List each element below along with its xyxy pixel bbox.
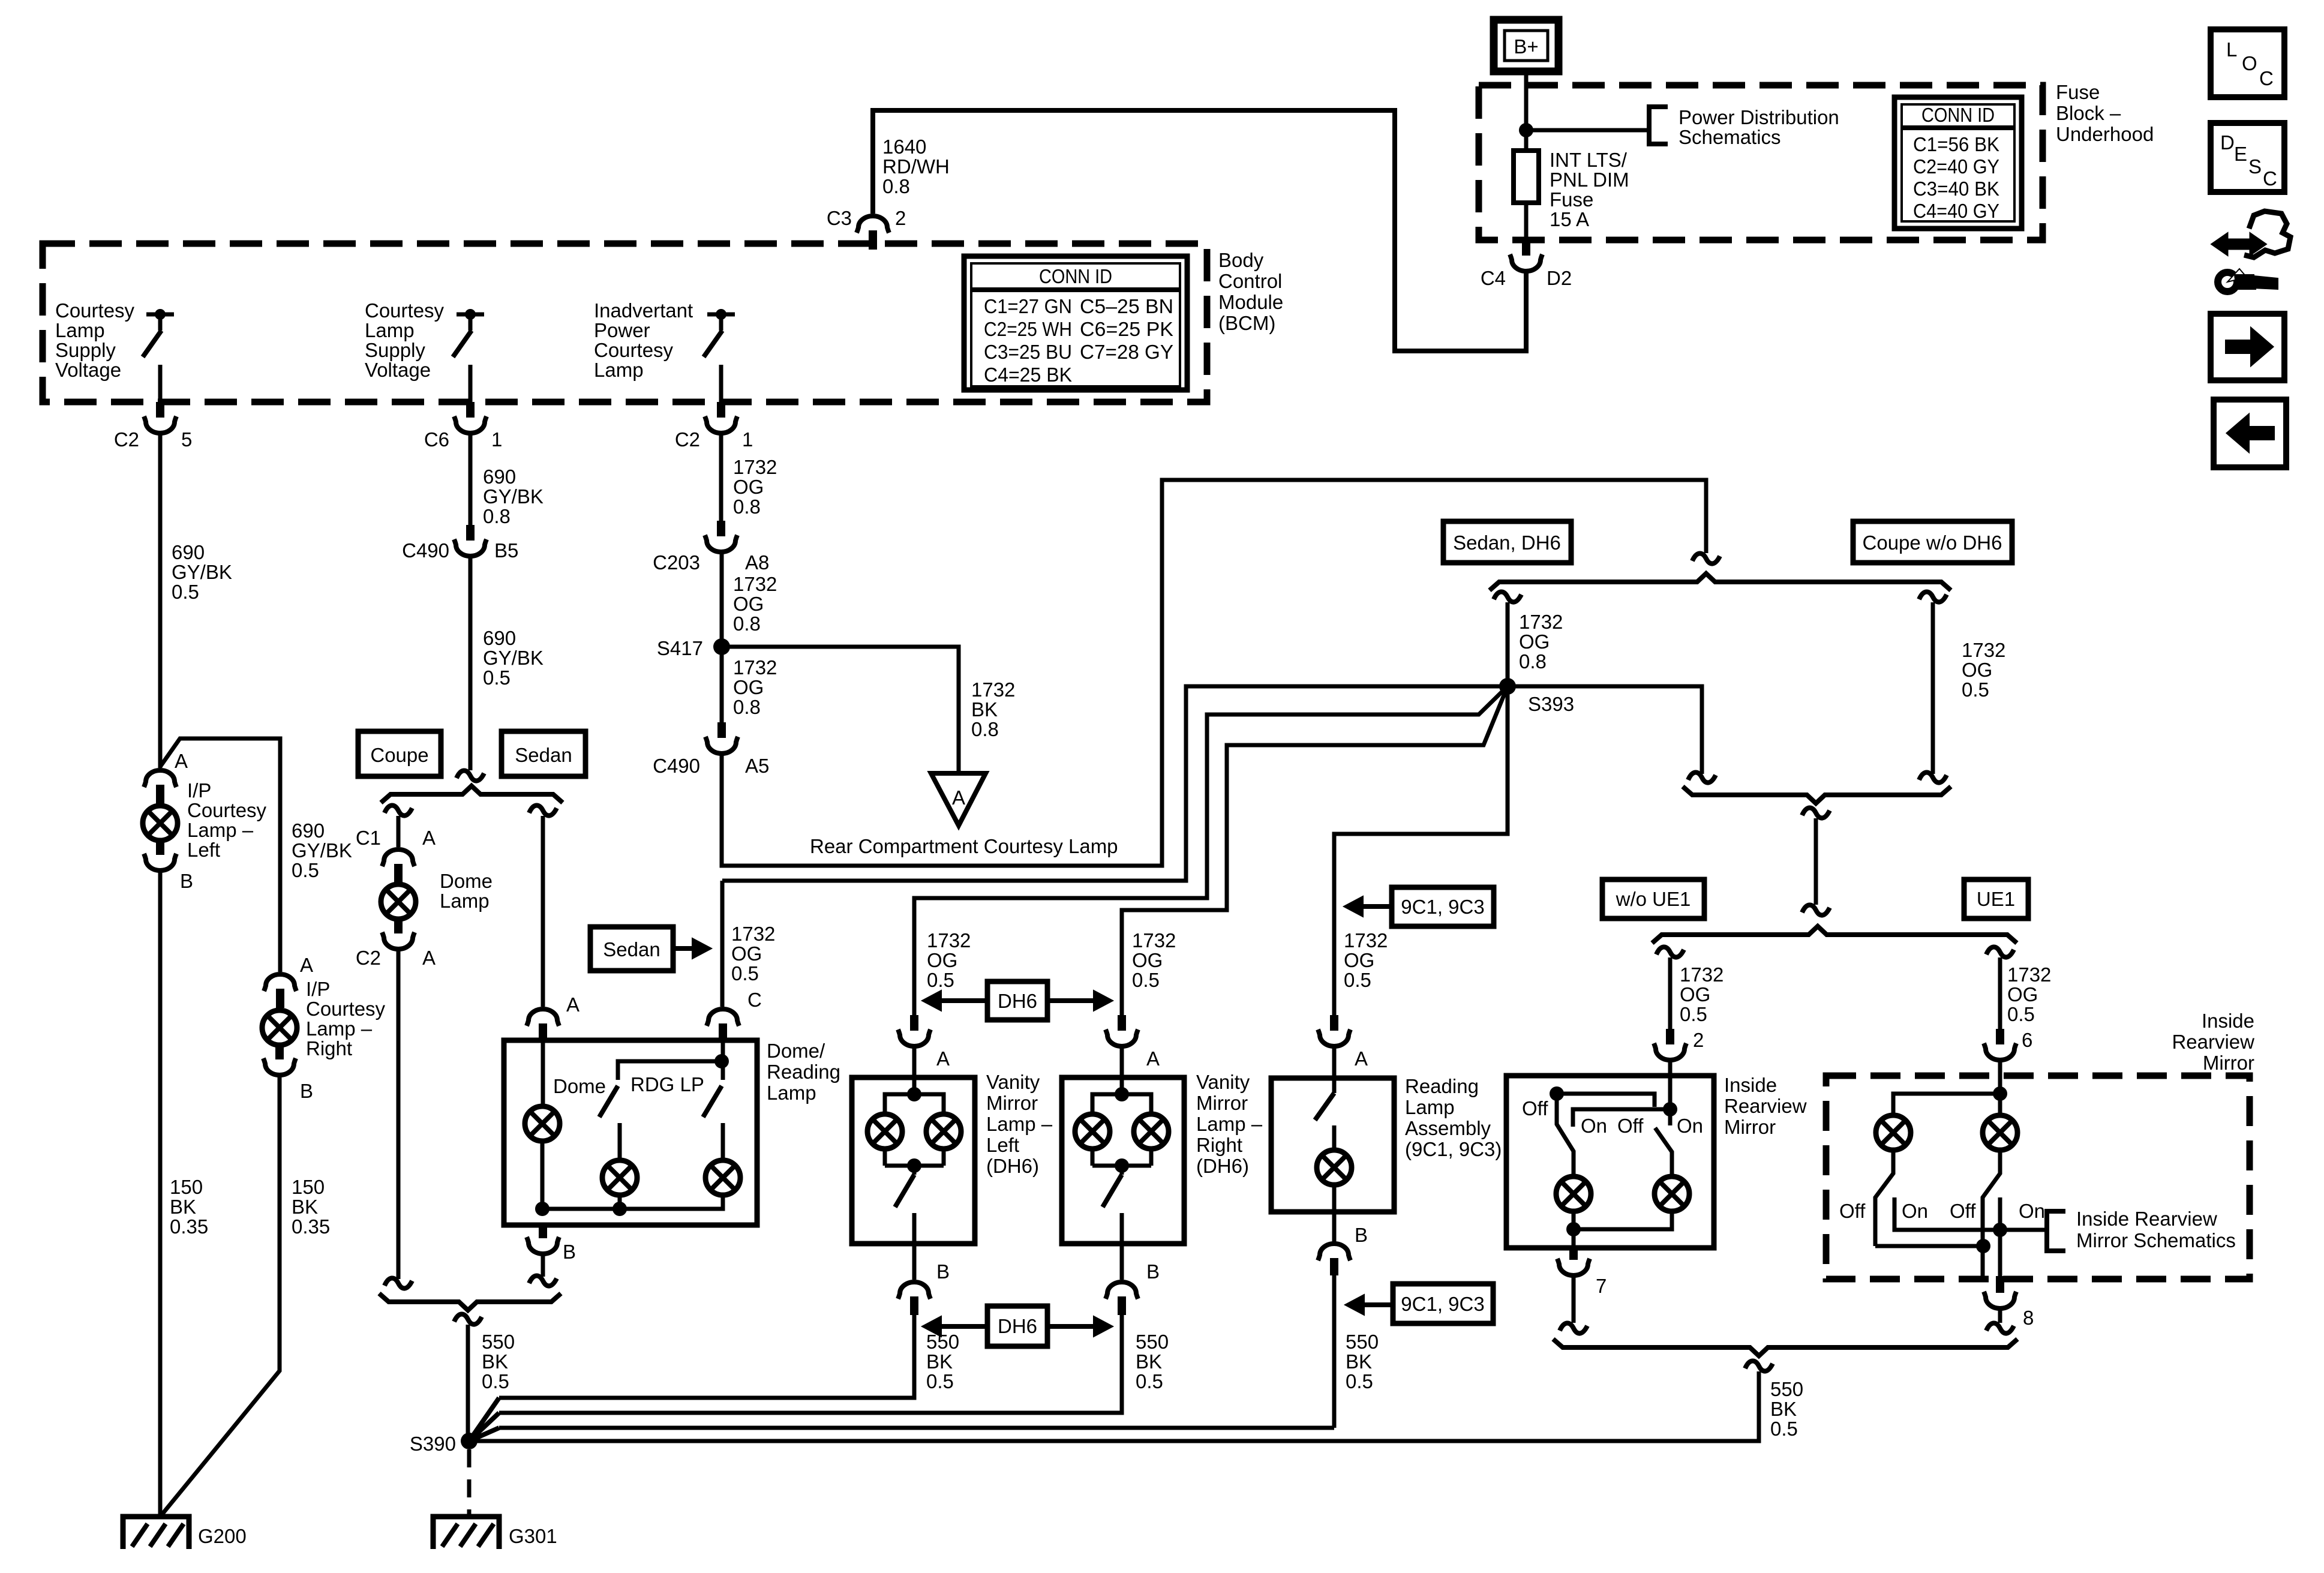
- svg-text:S417: S417: [657, 637, 703, 659]
- svg-text:B: B: [563, 1241, 576, 1263]
- svg-text:Mirror Schematics: Mirror Schematics: [2076, 1229, 2236, 1251]
- label 690 GY/BK 0.8: [483, 466, 544, 527]
- svg-text:Courtesy: Courtesy: [55, 299, 135, 322]
- wire bulb to B: [1332, 1186, 1337, 1242]
- label Off: [1950, 1200, 1976, 1222]
- svg-text:Control: Control: [1218, 270, 1282, 292]
- S393 left line to dome/reading C feed: [722, 686, 1508, 881]
- wire S393 right to merge brace: [1508, 686, 1702, 774]
- connector A of reading lamp assembly: [1318, 1015, 1368, 1070]
- svg-text:OG: OG: [2007, 983, 2038, 1005]
- svg-text:Schematics: Schematics: [1679, 126, 1781, 148]
- vanity left exit wire: [912, 1213, 917, 1244]
- connector B of vanity mirror lamp left: [898, 1244, 950, 1315]
- connector B of I/P courtesy lamp left: [144, 842, 193, 892]
- mirror lower rail: [1573, 1109, 1670, 1127]
- svg-text:Power Distribution: Power Distribution: [1679, 106, 1839, 128]
- connector C2 pin 5: [114, 402, 193, 451]
- svg-text:A: A: [952, 786, 965, 809]
- right mirror drop curl: [1986, 947, 2014, 957]
- splice S393: [1499, 678, 1574, 715]
- reading lamp assembly box: [1271, 1078, 1394, 1212]
- svg-text:0.8: 0.8: [483, 505, 511, 527]
- UE1 right bulb feed: [1998, 1094, 2002, 1114]
- svg-text:RDG LP: RDG LP: [630, 1073, 704, 1095]
- svg-text:OG: OG: [1519, 631, 1550, 653]
- label 1732 OG 0.5: [1132, 929, 1176, 991]
- label 1640 RD/WH 0.8: [882, 136, 950, 197]
- svg-text:1732: 1732: [1519, 611, 1563, 633]
- junction dot bottom rail left: [535, 1202, 550, 1216]
- UE1 left On post: [1894, 1197, 2047, 1230]
- svg-text:C1=56 BK: C1=56 BK: [1913, 133, 1999, 155]
- svg-text:5: 5: [181, 428, 192, 451]
- wire reading lamp return: [499, 1426, 1334, 1430]
- svg-text:C6: C6: [424, 428, 449, 451]
- 9C1 9C3 tag with arrow (top): [1344, 887, 1494, 926]
- svg-text:1640: 1640: [882, 136, 926, 158]
- svg-text:On: On: [2019, 1200, 2045, 1222]
- svg-text:Reading: Reading: [767, 1061, 840, 1083]
- curl below mirror brace: [1745, 1361, 1773, 1371]
- vanity right bulb 1: [1075, 1114, 1110, 1149]
- connector C490 pin A5: [653, 722, 769, 777]
- left RDG lamp feed: [618, 1123, 622, 1159]
- junction dot fuse feed: [1519, 123, 1533, 137]
- svg-text:Off: Off: [1950, 1200, 1976, 1222]
- svg-text:Sedan: Sedan: [603, 938, 660, 960]
- connector B of I/P courtesy lamp right: [263, 1046, 313, 1102]
- brace mirror returns: [1553, 1339, 2017, 1356]
- sedan tag box with arrow: [590, 927, 711, 971]
- svg-text:Lamp: Lamp: [365, 319, 415, 341]
- svg-text:E: E: [2234, 143, 2247, 165]
- svg-text:Lamp –: Lamp –: [1196, 1113, 1263, 1135]
- svg-text:C7=28 GY: C7=28 GY: [1080, 341, 1173, 363]
- svg-text:1732: 1732: [733, 656, 777, 679]
- junction dot upper rail: [1550, 1086, 1564, 1101]
- label 1732 OG 0.8: [733, 656, 777, 718]
- svg-text:Lamp: Lamp: [55, 319, 105, 341]
- svg-text:0.5: 0.5: [2007, 1003, 2035, 1025]
- DH6 tag with arrows (top): [922, 981, 1113, 1020]
- svg-text:Courtesy: Courtesy: [365, 299, 445, 322]
- svg-text:A: A: [175, 750, 188, 772]
- svg-text:C: C: [747, 989, 762, 1011]
- wire S417 down to C490: [720, 647, 724, 722]
- dome/reading lamp box: [504, 1040, 757, 1225]
- junction dot: [907, 1087, 921, 1101]
- junction dot: [1115, 1087, 1129, 1101]
- svg-text:0.5: 0.5: [292, 859, 319, 881]
- label 150 BK 0.35: [292, 1176, 330, 1238]
- svg-text:A5: A5: [745, 755, 769, 777]
- svg-text:Inadvertant: Inadvertant: [594, 299, 693, 322]
- inside rearview mirror dashed box (UE1): [1826, 1076, 2250, 1279]
- svg-text:1732: 1732: [1344, 929, 1388, 951]
- body control module dashed box: [43, 244, 1207, 402]
- svg-text:BK: BK: [170, 1196, 196, 1218]
- label 1732 OG 0.8: [1519, 611, 1563, 673]
- label Off: [1839, 1200, 1866, 1222]
- left mirror switch lever: [1557, 1094, 1574, 1175]
- label 1732 OG 0.5: [731, 923, 775, 984]
- end curl dome return: [385, 1278, 412, 1288]
- wire A into box to dome bulb: [541, 1043, 545, 1105]
- label 150 BK 0.35: [170, 1176, 208, 1238]
- vanity left switch lever: [895, 1166, 914, 1207]
- label RDG LP: [630, 1073, 704, 1095]
- wire drop to S393: [1506, 602, 1510, 686]
- junction dot: [907, 1158, 921, 1173]
- connector A of I/P courtesy lamp right: [264, 954, 313, 1008]
- vanity left bulb 1: [867, 1114, 902, 1149]
- svg-text:OG: OG: [1962, 659, 1992, 681]
- label 1732 OG 0.5: [1680, 963, 1724, 1025]
- brace merge to mirrors: [1683, 786, 1951, 803]
- svg-text:0.5: 0.5: [1680, 1003, 1707, 1025]
- label 1732 OG 0.5: [1962, 639, 2005, 701]
- left RDG switch lever: [599, 1086, 618, 1117]
- svg-text:I/P: I/P: [187, 779, 211, 801]
- svg-text:B: B: [936, 1260, 950, 1283]
- svg-text:G301: G301: [509, 1525, 557, 1547]
- connector B of vanity mirror lamp right: [1106, 1244, 1160, 1315]
- svg-text:0.8: 0.8: [733, 496, 761, 518]
- svg-text:C490: C490: [402, 539, 449, 562]
- svg-text:(BCM): (BCM): [1218, 312, 1275, 334]
- label Off: [1522, 1097, 1548, 1119]
- svg-text:C3=25 BU: C3=25 BU: [984, 341, 1072, 363]
- UE1 bottom link: [1875, 1244, 1983, 1248]
- switch Courtesy Lamp Supply Voltage (left) in BCM: [55, 299, 174, 381]
- svg-text:GY/BK: GY/BK: [292, 839, 352, 861]
- label pin 2: [1693, 1029, 1704, 1051]
- svg-text:A: A: [422, 827, 436, 849]
- svg-text:7: 7: [1596, 1275, 1607, 1297]
- label Fuse Block - Underhood: [2056, 81, 2154, 145]
- label On: [1902, 1200, 1928, 1222]
- svg-text:C3: C3: [827, 207, 852, 229]
- svg-text:1: 1: [491, 428, 502, 451]
- wire C2-5 down to I/P lamp left: [158, 431, 163, 768]
- svg-text:GY/BK: GY/BK: [172, 561, 232, 583]
- svg-text:Courtesy: Courtesy: [594, 339, 674, 361]
- label On: [1677, 1115, 1703, 1137]
- svg-text:Lamp: Lamp: [440, 890, 490, 912]
- svg-text:550: 550: [1770, 1378, 1803, 1400]
- svg-text:Coupe w/o DH6: Coupe w/o DH6: [1863, 532, 2002, 554]
- wire C6-1 down to C490: [469, 431, 473, 525]
- brace sedan-dh6 / coupe w-o dh6: [1490, 574, 1951, 590]
- wrench arrow icon: [2212, 211, 2290, 292]
- svg-text:690: 690: [483, 466, 516, 488]
- svg-text:Courtesy: Courtesy: [306, 998, 386, 1020]
- svg-text:PNL DIM: PNL DIM: [1550, 169, 1629, 191]
- UE1 left switch lever: [1875, 1151, 1893, 1246]
- svg-text:0.8: 0.8: [733, 696, 761, 718]
- switch Inadvertant Power Courtesy Lamp in BCM: [594, 299, 735, 381]
- svg-text:0.5: 0.5: [1132, 969, 1160, 991]
- junction dot bottom rail middle: [612, 1202, 627, 1216]
- dome bulb: [525, 1106, 560, 1141]
- connector C of dome/reading lamp: [707, 989, 762, 1043]
- switch Courtesy Lamp Supply Voltage (mid) in BCM: [365, 299, 484, 381]
- wire A into vanity right: [1120, 1044, 1124, 1094]
- curl below brace: [454, 1314, 482, 1324]
- junction dot On rail: [1993, 1223, 2007, 1237]
- label 550 BK 0.5: [1770, 1378, 1803, 1440]
- junction dot: [1976, 1239, 1990, 1253]
- svg-text:Body: Body: [1218, 249, 1264, 271]
- fuse block - underhood dashed box: [1479, 85, 2043, 240]
- svg-text:8: 8: [2023, 1307, 2034, 1329]
- coupe drop curl: [385, 805, 412, 815]
- wire w/o UE1 drop: [1668, 957, 1673, 1029]
- svg-text:15 A: 15 A: [1550, 208, 1589, 230]
- label 1732 BK 0.8: [971, 679, 1015, 740]
- svg-text:BK: BK: [926, 1350, 953, 1373]
- end curl pin8: [1986, 1323, 2014, 1333]
- label 550 BK 0.5: [1136, 1331, 1169, 1392]
- svg-text:0.35: 0.35: [170, 1215, 208, 1238]
- svg-text:Assembly: Assembly: [1405, 1117, 1491, 1139]
- wire reading B down: [1332, 1275, 1337, 1428]
- svg-text:BK: BK: [1136, 1350, 1162, 1373]
- junction dot mirror feed: [1663, 1102, 1677, 1116]
- svg-text:OG: OG: [733, 676, 764, 698]
- svg-text:BK: BK: [482, 1350, 508, 1373]
- svg-text:0.8: 0.8: [733, 613, 761, 635]
- end curl: [1688, 772, 1716, 782]
- svg-text:2: 2: [895, 207, 906, 229]
- left arrow legend box: [2214, 400, 2286, 467]
- label Reading Lamp Assembly (9C1, 9C3): [1405, 1075, 1502, 1160]
- label 1732 OG 0.5: [927, 929, 971, 991]
- svg-text:0.5: 0.5: [1346, 1370, 1373, 1392]
- svg-text:Block –: Block –: [2056, 102, 2121, 124]
- svg-text:OG: OG: [731, 942, 762, 965]
- svg-text:0.8: 0.8: [882, 175, 910, 197]
- wire switch to BCM edge: [719, 365, 723, 402]
- svg-text:Lamp: Lamp: [594, 359, 644, 381]
- svg-text:S: S: [2248, 155, 2262, 178]
- wire switch to BCM edge: [469, 365, 473, 402]
- wire S417 to rear compartment lamp triangle: [722, 647, 959, 773]
- label 690 GY/BK 0.5: [292, 819, 352, 881]
- svg-text:C2: C2: [114, 428, 139, 451]
- reading bulb 1: [602, 1160, 637, 1195]
- svg-text:S390: S390: [410, 1433, 456, 1455]
- svg-text:A8: A8: [745, 551, 769, 574]
- off-page bracket Power Distribution: [1649, 106, 1839, 148]
- label 690 GY/BK 0.5: [483, 627, 544, 689]
- wire vanity left return: [499, 1315, 914, 1398]
- I/P courtesy lamp - right: [262, 978, 386, 1059]
- svg-text:Off: Off: [1617, 1115, 1644, 1137]
- svg-text:(9C1, 9C3): (9C1, 9C3): [1405, 1138, 1502, 1160]
- svg-text:A: A: [566, 993, 580, 1016]
- svg-text:Right: Right: [1196, 1134, 1242, 1156]
- curl above UE1 split brace: [1802, 905, 1830, 915]
- svg-text:9C1, 9C3: 9C1, 9C3: [1401, 1293, 1484, 1315]
- svg-text:Mirror: Mirror: [1724, 1116, 1776, 1138]
- svg-text:Lamp: Lamp: [1405, 1096, 1455, 1118]
- svg-text:DH6: DH6: [998, 990, 1037, 1012]
- svg-text:CONN ID: CONN ID: [1039, 265, 1112, 287]
- svg-text:1732: 1732: [1132, 929, 1176, 951]
- wire A into reading lamp: [1332, 1044, 1337, 1093]
- connector C2 pin 1: [675, 402, 753, 451]
- svg-text:C: C: [2259, 67, 2274, 89]
- svg-text:CONN ID: CONN ID: [1921, 104, 1995, 126]
- label 1732 OG 0.8: [733, 573, 777, 635]
- end curl pin7: [1560, 1323, 1587, 1333]
- svg-text:C2=40 GY: C2=40 GY: [1913, 155, 1999, 178]
- label 550 BK 0.5: [1346, 1331, 1379, 1392]
- S393 down to reading lamp feed: [1334, 686, 1508, 1015]
- svg-text:Fuse: Fuse: [1550, 188, 1593, 211]
- svg-text:Left: Left: [986, 1134, 1019, 1156]
- svg-text:Mirror: Mirror: [1196, 1092, 1248, 1114]
- wire dome/reading C feed drop: [720, 881, 725, 1007]
- vanity mirror lamp right box: [1062, 1077, 1184, 1244]
- sedan drop curl: [529, 805, 557, 815]
- splice S390 with fan-in: [410, 1398, 499, 1455]
- svg-text:0.5: 0.5: [1962, 679, 1989, 701]
- connector A of dome/reading lamp: [527, 993, 580, 1043]
- svg-text:Rearview: Rearview: [2172, 1031, 2254, 1053]
- svg-text:B: B: [180, 870, 193, 892]
- svg-text:Right: Right: [306, 1037, 352, 1059]
- end curl: [529, 1275, 557, 1286]
- svg-text:550: 550: [1136, 1331, 1169, 1353]
- dashed wire S390 to G301: [467, 1449, 472, 1514]
- option box w/o UE1: [1602, 879, 1704, 918]
- wire I/P left to G200: [158, 871, 163, 1517]
- svg-text:Inside: Inside: [1724, 1074, 1777, 1096]
- label 550 BK 0.5: [926, 1331, 959, 1392]
- svg-text:BK: BK: [1770, 1398, 1797, 1420]
- reading bulb: [1317, 1150, 1352, 1185]
- ground G200: [123, 1517, 247, 1549]
- svg-text:RD/WH: RD/WH: [882, 155, 950, 178]
- svg-text:Sedan, DH6: Sedan, DH6: [1453, 532, 1561, 554]
- wire pin8 down: [1998, 1309, 2002, 1323]
- svg-text:OG: OG: [733, 593, 764, 615]
- svg-text:690: 690: [292, 819, 325, 842]
- reading bulb 2: [705, 1160, 740, 1195]
- label 550 BK 0.5: [482, 1331, 515, 1392]
- LOC legend box: [2211, 29, 2284, 97]
- end curl above merge brace: [1919, 772, 1947, 782]
- svg-text:Coupe: Coupe: [370, 744, 428, 766]
- svg-text:A: A: [1146, 1047, 1160, 1070]
- left drop curl: [1494, 592, 1521, 602]
- wire to S390: [466, 1325, 470, 1442]
- svg-text:A: A: [300, 954, 313, 976]
- right RDG switch lever: [703, 1086, 722, 1117]
- UE1 right switch lever: [1983, 1151, 2000, 1246]
- svg-text:Voltage: Voltage: [365, 359, 431, 381]
- label 1732 OG 0.5: [2007, 963, 2051, 1025]
- svg-text:A: A: [422, 947, 436, 969]
- wire pin7 down: [1572, 1276, 1576, 1323]
- svg-text:Off: Off: [1839, 1200, 1866, 1222]
- svg-text:Sedan: Sedan: [515, 744, 572, 766]
- reading lamp switch lever: [1315, 1093, 1334, 1120]
- svg-text:C4=25 BK: C4=25 BK: [984, 364, 1072, 386]
- wire UE1 drop: [1998, 957, 2002, 1029]
- svg-text:Courtesy: Courtesy: [187, 799, 267, 821]
- vanity left bulb 2: [926, 1114, 961, 1149]
- vanity right bulb pair feed: [1092, 1094, 1151, 1113]
- label Dome/Reading Lamp: [767, 1040, 840, 1104]
- I/P courtesy lamp - left: [143, 779, 267, 861]
- wire sedan drop to dome/reading lamp: [541, 816, 545, 1007]
- CONN ID table (BCM): [964, 256, 1187, 390]
- connector pin 2 of inside rearview mirror: [1654, 1029, 1686, 1060]
- wire dome bulb to bottom rail: [541, 1142, 545, 1209]
- DESC legend box: [2211, 123, 2284, 192]
- split curl: [457, 770, 484, 781]
- svg-text:1732: 1732: [2007, 963, 2051, 986]
- label Inside Rearview Mirror: [1724, 1074, 1807, 1138]
- option box Sedan: [502, 731, 585, 776]
- svg-text:0.5: 0.5: [926, 1370, 954, 1392]
- svg-text:w/o UE1: w/o UE1: [1616, 888, 1691, 910]
- svg-text:B+: B+: [1514, 35, 1538, 58]
- junction dot UE1 feed: [1993, 1086, 2007, 1101]
- svg-text:GY/BK: GY/BK: [483, 485, 544, 508]
- label Body Control Module (BCM): [1218, 249, 1283, 334]
- wire coupe w/o dh6 drop: [1931, 602, 1935, 774]
- off-page triangle A rear compartment courtesy lamp: [810, 773, 1118, 857]
- DH6 tag with arrows (bottom): [922, 1306, 1113, 1346]
- svg-text:0.5: 0.5: [731, 962, 759, 984]
- mirror upper rail: [1557, 1094, 1655, 1107]
- svg-text:Inside: Inside: [2202, 1010, 2254, 1032]
- option box Coupe: [358, 731, 441, 776]
- svg-text:9C1, 9C3: 9C1, 9C3: [1401, 896, 1484, 918]
- svg-text:0.5: 0.5: [483, 667, 511, 689]
- S393 diagonal to vanity-left feed: [914, 686, 1508, 1015]
- svg-text:A: A: [936, 1047, 950, 1070]
- svg-text:S393: S393: [1528, 693, 1574, 715]
- svg-text:1732: 1732: [731, 923, 775, 945]
- svg-text:690: 690: [483, 627, 516, 649]
- connector C4 / D2 below fuse block: [1481, 240, 1572, 289]
- connector B of dome/reading lamp: [527, 1225, 576, 1263]
- UE1 left bulb: [1876, 1115, 1911, 1150]
- svg-text:2: 2: [1693, 1029, 1704, 1051]
- wire I/P right to G200: [160, 1076, 280, 1517]
- connector C3 pin 2 at BCM: [827, 207, 906, 250]
- svg-text:BK: BK: [292, 1196, 318, 1218]
- UE1 right bulb: [1983, 1115, 2017, 1150]
- svg-text:Reading: Reading: [1405, 1075, 1479, 1097]
- label Vanity Mirror Lamp - Left (DH6): [986, 1071, 1053, 1177]
- connector pin 8: [1984, 1276, 2034, 1329]
- svg-text:C6=25 PK: C6=25 PK: [1080, 318, 1173, 340]
- B+ battery positive voltage symbol: [1494, 20, 1559, 71]
- svg-text:C5–25 BN: C5–25 BN: [1080, 295, 1173, 317]
- right mirror switch lever: [1655, 1128, 1672, 1175]
- svg-text:550: 550: [482, 1331, 515, 1353]
- svg-text:550: 550: [926, 1331, 959, 1353]
- svg-text:Mirror: Mirror: [2203, 1052, 2254, 1074]
- svg-text:C4: C4: [1481, 267, 1506, 289]
